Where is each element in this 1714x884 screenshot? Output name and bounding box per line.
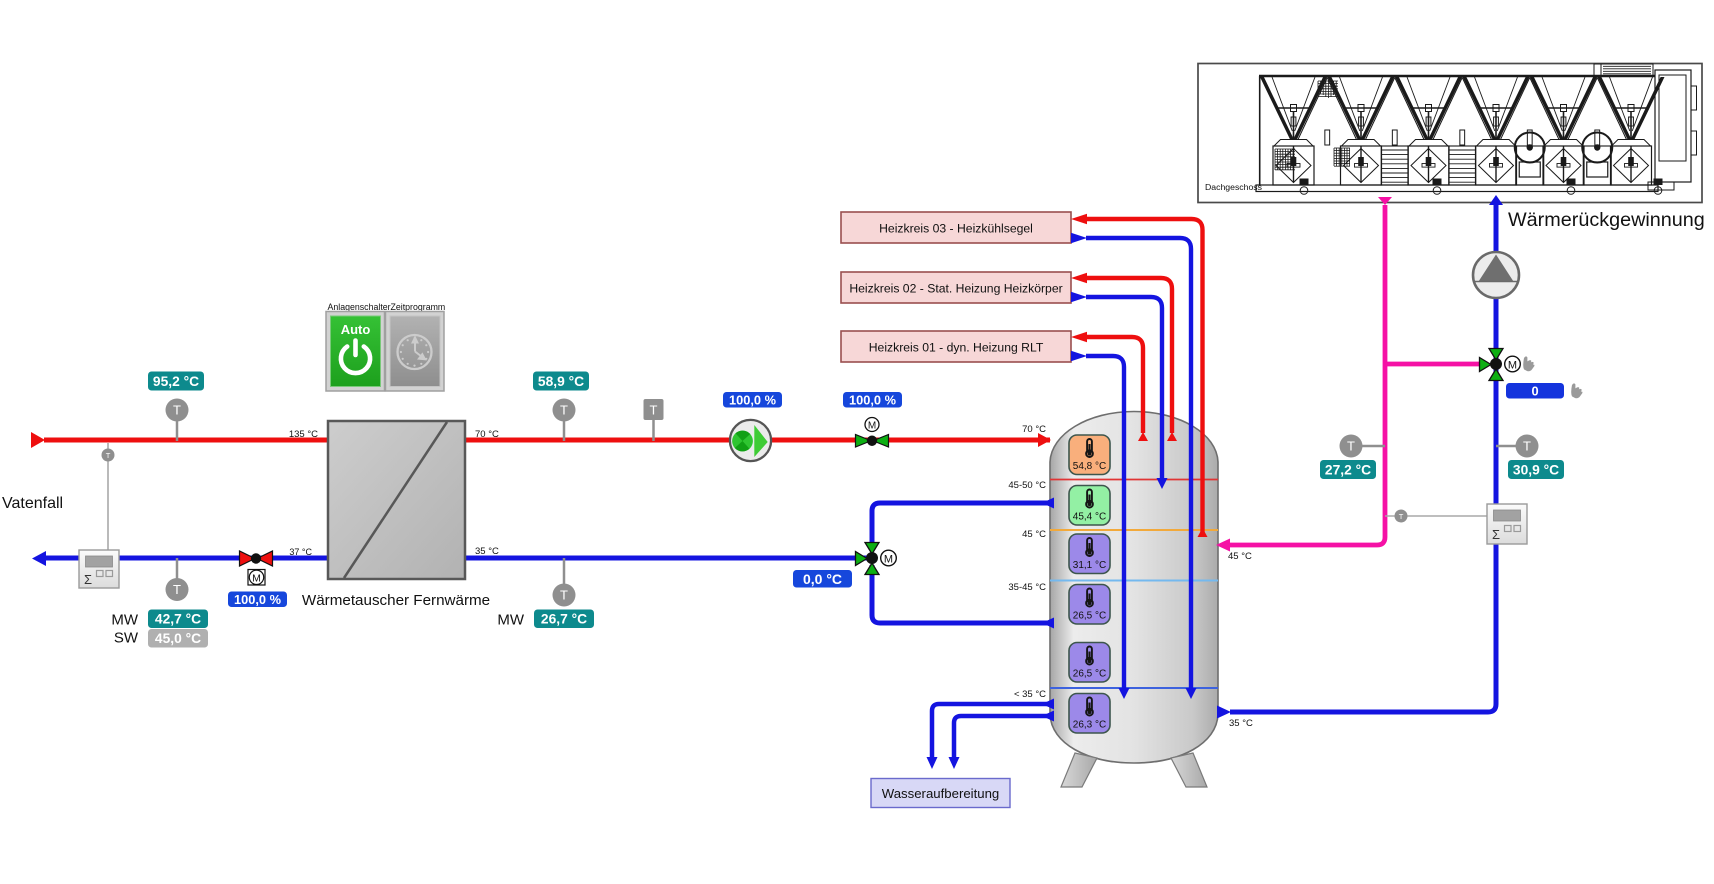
wire HK02 return blue	[1071, 292, 1168, 489]
svg-text:30,9 °C: 30,9 °C	[1513, 462, 1559, 477]
wire tank lower port to valve V3	[872, 565, 1054, 629]
svg-text:135 °C: 135 °C	[289, 429, 318, 440]
thermometer tank 54,8 C	[1069, 435, 1110, 475]
icon hand at badge 0	[1571, 383, 1582, 398]
icon hand at valve V4	[1523, 356, 1534, 371]
valve V4 three-way WRG with motor M	[1480, 349, 1521, 381]
thermometer tank 26,5b C	[1069, 643, 1110, 683]
svg-text:45,4 °C: 45,4 °C	[1073, 511, 1106, 522]
svg-text:26,7 °C: 26,7 °C	[541, 612, 587, 627]
svg-text:M: M	[1508, 360, 1517, 372]
drawing AHU V-module 6	[1598, 77, 1665, 185]
drawing AHU right cabinet	[1648, 70, 1697, 190]
drawing AHU truss lambda 4	[1501, 78, 1560, 140]
wire HK02 supply red	[1071, 273, 1177, 441]
svg-text:M: M	[868, 421, 876, 432]
svg-text:Wärmerückgewinnung: Wärmerückgewinnung	[1508, 209, 1705, 231]
svg-text:Auto: Auto	[341, 322, 371, 337]
svg-text:100,0 %: 100,0 %	[234, 592, 282, 607]
drawing AHU fan	[1515, 133, 1545, 186]
drawing AHU V-module 2	[1328, 77, 1395, 185]
tank level line lightblue 35-45	[1050, 580, 1218, 582]
heat meter Sigma WRG	[1487, 504, 1527, 544]
drawing AHU top vent	[1594, 64, 1653, 76]
valve V3 three-way with motor M	[856, 543, 897, 575]
sensor T6 pink 27,2 C	[1340, 435, 1386, 458]
drawing AHU truss lambda 3	[1433, 78, 1492, 140]
svg-text:0,0 °C: 0,0 °C	[803, 571, 842, 587]
thermometer tank 26,3 C	[1069, 694, 1110, 734]
svg-text:Heizkreis 01 - dyn. Heizung RL: Heizkreis 01 - dyn. Heizung RLT	[869, 341, 1044, 355]
wire HK03 return blue	[1071, 233, 1197, 699]
badge pump P1 100,0 %	[723, 392, 782, 408]
svg-text:Zeitprogramm: Zeitprogramm	[391, 302, 446, 312]
wire pink branch to valve V4	[1385, 362, 1480, 367]
svg-text:31,1 °C: 31,1 °C	[1073, 560, 1106, 571]
button Anlagenschalter Auto	[326, 312, 385, 392]
pump P1 supply	[728, 420, 771, 461]
box Heizkreis 01 - dyn. Heizung RLT	[841, 331, 1071, 362]
svg-text:100,0 %: 100,0 %	[729, 392, 777, 407]
badge 0,0 C	[793, 570, 852, 588]
thermometer tank 45,4 C	[1069, 486, 1110, 526]
svg-text:T: T	[173, 403, 181, 418]
svg-text:T: T	[106, 451, 111, 460]
sensor t small WRG meter line	[1385, 515, 1487, 517]
svg-text:Wasseraufbereitung: Wasseraufbereitung	[882, 786, 1000, 801]
drawing AHU hatch top	[1318, 81, 1338, 98]
svg-text:T: T	[1399, 512, 1404, 521]
svg-text:MW: MW	[111, 612, 138, 629]
svg-text:< 35 °C: < 35 °C	[1014, 689, 1046, 700]
svg-text:26,3 °C: 26,3 °C	[1073, 719, 1106, 730]
valve V1 return with motor M	[240, 551, 273, 585]
svg-text:M: M	[252, 572, 261, 584]
svg-text:M: M	[884, 554, 893, 566]
wire HK01 return blue	[1071, 351, 1130, 699]
svg-text:45,0 °C: 45,0 °C	[155, 631, 201, 646]
node pink arrow into tank	[1216, 539, 1230, 552]
tank level line red 45-50	[1050, 479, 1218, 481]
wire blue return main left	[45, 556, 328, 561]
wire red supply main left	[44, 438, 328, 443]
svg-text:70 °C: 70 °C	[1022, 424, 1046, 435]
drawing AHU louver cell	[1449, 146, 1476, 185]
thermometer tank 26,5a C	[1069, 585, 1110, 625]
box Heizkreis 02 - Stat. Heizung Heizkoerper	[841, 272, 1071, 303]
svg-text:26,5 °C: 26,5 °C	[1073, 668, 1106, 679]
svg-text:Heizkreis 03 - Heizkühlsegel: Heizkreis 03 - Heizkühlsegel	[879, 222, 1033, 236]
tank leg left	[1061, 753, 1097, 787]
drawing AHU V-module 5	[1530, 77, 1597, 185]
svg-text:26,5 °C: 26,5 °C	[1073, 610, 1106, 621]
wire tank to Wasseraufbereitung 1	[927, 699, 1055, 770]
sensor T7 blue 30,9 C	[1496, 435, 1539, 458]
drawing AHU V-module 3	[1395, 77, 1462, 185]
node red arrow into tank	[1038, 433, 1051, 447]
drawing AHU truss lambda 1	[1298, 78, 1357, 140]
svg-text:Heizkreis 02 - Stat. Heizung H: Heizkreis 02 - Stat. Heizung Heizkörper	[849, 282, 1062, 296]
svg-text:27,2 °C: 27,2 °C	[1325, 462, 1371, 477]
pump P2 WRG	[1473, 252, 1519, 298]
svg-text:T: T	[173, 582, 181, 597]
sensor T5 return after HX MW 26,7	[553, 558, 576, 607]
svg-text:Anlagenschalter: Anlagenschalter	[328, 302, 391, 312]
svg-text:45 °C: 45 °C	[1022, 529, 1046, 540]
box Wasseraufbereitung	[871, 779, 1010, 808]
wire tank to Wasseraufbereitung 2	[949, 711, 1055, 770]
box Heizkreis 03 - Heizkuehlsegel	[841, 212, 1071, 243]
svg-text:35 °C: 35 °C	[475, 546, 499, 557]
drawing AHU wheels	[1300, 179, 1663, 195]
drawing AHU hatch cell mid	[1334, 148, 1350, 166]
tank buffer storage body	[1050, 412, 1218, 764]
wire red supply main right	[464, 438, 1050, 443]
sensor t small on meter line	[107, 443, 109, 551]
box Dachgeschoss AHU frame	[1198, 64, 1702, 203]
svg-text:MW: MW	[497, 612, 524, 629]
svg-text:45-50 °C: 45-50 °C	[1008, 480, 1046, 491]
drawing AHU truss lambda 5	[1568, 78, 1627, 140]
drawing AHU truss lambda 2	[1366, 78, 1425, 140]
svg-text:70 °C: 70 °C	[475, 429, 499, 440]
drawing AHU posts	[1325, 130, 1600, 145]
drawing AHU fan	[1582, 133, 1612, 186]
sensor T3 square outdoor	[644, 399, 664, 441]
button Zeitprogramm clock	[386, 312, 445, 392]
svg-text:45 °C: 45 °C	[1228, 551, 1252, 562]
drawing AHU hatch cell left	[1275, 149, 1295, 170]
badge valve V1 100,0 %	[228, 592, 287, 608]
tank level line orange 45	[1050, 529, 1218, 531]
tank leg right	[1171, 753, 1207, 787]
valve V2 supply with motor M	[856, 418, 889, 448]
svg-text:T: T	[560, 403, 568, 418]
node pink arrow down from AHU	[1378, 197, 1392, 205]
drawing AHU V-module 4	[1463, 77, 1530, 185]
drawing AHU machine	[1256, 64, 1697, 194]
svg-text:35 °C: 35 °C	[1229, 718, 1253, 729]
wire blue WRG return vertical	[1230, 205, 1496, 712]
heat meter Sigma Vatenfall	[79, 550, 119, 588]
svg-text:Σ: Σ	[1492, 527, 1500, 542]
svg-text:T: T	[1347, 439, 1355, 454]
sensor T4 return MW 42,7 with setpoint	[166, 558, 189, 601]
sensor T1 supply with badge 95,2 C	[166, 399, 189, 442]
wire pink WRG supply vertical	[1230, 205, 1385, 545]
wire tank upper port to valve V3	[872, 498, 1054, 552]
svg-text:Vatenfall: Vatenfall	[2, 495, 63, 512]
drawing AHU louver cell	[1381, 146, 1408, 185]
drawing AHU V-module 1	[1260, 77, 1327, 185]
svg-text:T: T	[560, 588, 568, 603]
heat exchanger Waermetauscher Fernwaerme	[328, 421, 465, 579]
svg-text:SW: SW	[114, 630, 139, 647]
svg-text:54,8 °C: 54,8 °C	[1073, 461, 1106, 472]
svg-text:100,0 %: 100,0 %	[849, 392, 897, 407]
wire blue return main right	[464, 556, 872, 561]
node Vatenfall supply inlet arrow	[31, 432, 45, 448]
svg-text:95,2 °C: 95,2 °C	[153, 374, 199, 389]
wire HK01 supply red	[1071, 332, 1148, 441]
svg-text:42,7 °C: 42,7 °C	[155, 612, 201, 627]
tank level line blue 35	[1050, 687, 1218, 689]
sensor T2 supply after HX with badge 58,9 C	[553, 399, 576, 442]
badge WRG valve 0	[1506, 383, 1564, 399]
thermometer tank 31,1 C	[1069, 534, 1110, 574]
node blue arrow out of tank	[1217, 706, 1231, 719]
svg-text:Wärmetauscher Fernwärme: Wärmetauscher Fernwärme	[302, 592, 490, 609]
node Vatenfall return outlet arrow	[32, 551, 46, 566]
svg-text:Dachgeschoss: Dachgeschoss	[1205, 182, 1263, 192]
svg-text:T: T	[1523, 439, 1531, 454]
svg-text:35-45 °C: 35-45 °C	[1008, 582, 1046, 593]
node blue arrow up into AHU	[1489, 195, 1503, 205]
svg-text:Σ: Σ	[84, 572, 92, 587]
svg-text:58,9 °C: 58,9 °C	[538, 374, 584, 389]
svg-text:0: 0	[1531, 383, 1538, 398]
svg-text:T: T	[650, 403, 658, 418]
svg-text:37 °C: 37 °C	[289, 547, 312, 557]
wire HK03 supply red	[1071, 214, 1208, 537]
badge valve V2 100,0 %	[843, 392, 902, 408]
